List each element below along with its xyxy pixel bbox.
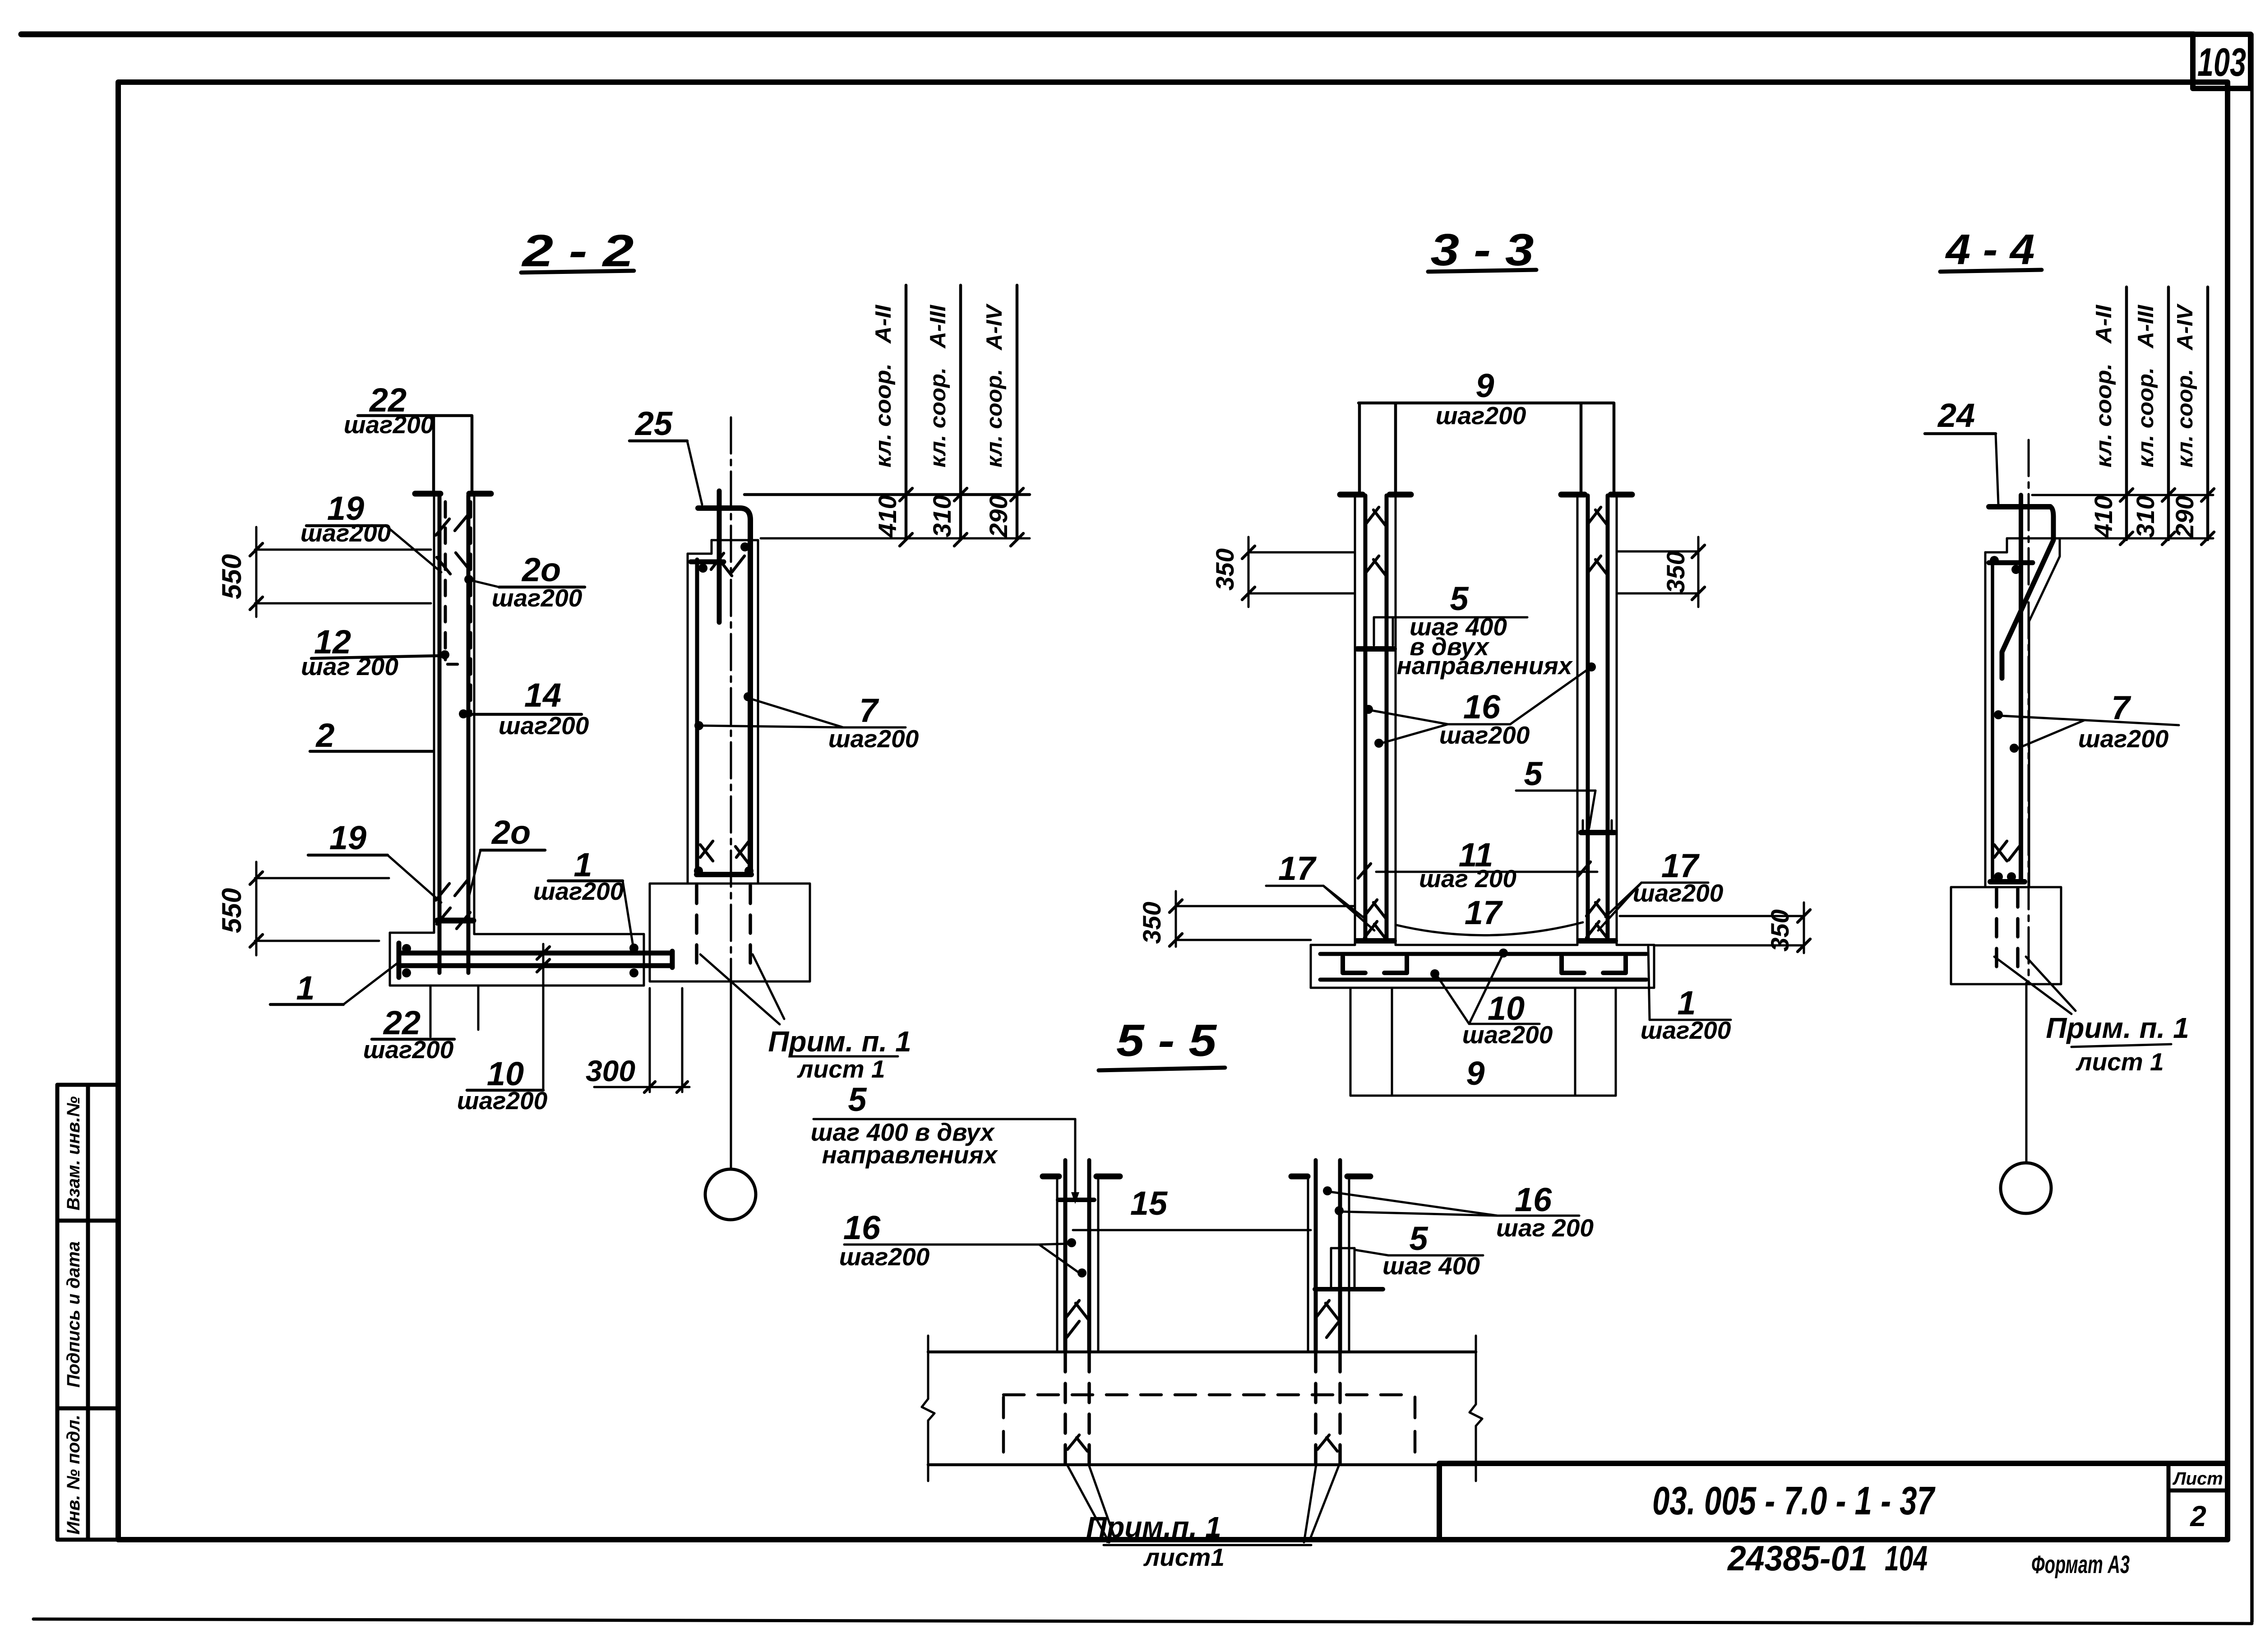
- centerline to circle 4-4: [2025, 983, 2028, 1163]
- right wall caps: [1291, 1174, 1308, 1180]
- footing middle wall: [650, 884, 810, 981]
- bar 10 hooks right: [1562, 957, 1626, 973]
- section title 3-3: [1428, 225, 1536, 275]
- wall top cap left: [415, 491, 440, 497]
- step bar thick 4-4: [1989, 560, 2033, 565]
- sheet right edge: [2250, 34, 2254, 1622]
- ticks right columns: [2120, 489, 2214, 545]
- slab band top line: [928, 1351, 1476, 1354]
- label 12 шаг200: [301, 623, 464, 680]
- wall right face: [757, 540, 759, 883]
- footing bar 1 lower: [399, 963, 672, 968]
- svg-text:кл. соор. А-II: кл. соор. А-II: [871, 305, 896, 467]
- svg-text:кл. соор. А-II: кл. соор. А-II: [2092, 305, 2116, 467]
- svg-text:290: 290: [2170, 495, 2199, 538]
- wall cap bent bar: [698, 508, 750, 874]
- footing 2-2 right edge: [643, 934, 645, 986]
- svg-text:410: 410: [2089, 495, 2117, 538]
- lap hatch bottom left wall: [1364, 900, 1387, 940]
- svg-text:310: 310: [2131, 495, 2159, 537]
- label 5 шаг 400 right: [1355, 1220, 1483, 1280]
- svg-text:шаг 200: шаг 200: [1419, 865, 1516, 893]
- svg-text:24: 24: [1937, 397, 1975, 434]
- label 14 шаг200: [459, 676, 589, 740]
- bar dots 4-4 top: [1990, 556, 1999, 565]
- column line A-II: [905, 285, 908, 540]
- right wall rebars: [1586, 495, 1590, 941]
- level line upper right: [2032, 494, 2213, 496]
- leader to note 2: [753, 954, 784, 1019]
- lap hatch top right wall: [1588, 507, 1608, 576]
- svg-text:Инв. № подл.: Инв. № подл.: [64, 1415, 83, 1535]
- lap hatch bottom right wall: [1586, 900, 1609, 940]
- footing bar dots: [1430, 969, 1439, 978]
- svg-text:шаг 200: шаг 200: [301, 652, 398, 680]
- svg-text:9: 9: [1475, 367, 1494, 404]
- svg-text:шаг200: шаг200: [1641, 1016, 1731, 1044]
- svg-text:03. 005 - 7.0 - 1 - 37: 03. 005 - 7.0 - 1 - 37: [1652, 1478, 1936, 1523]
- rebar stub right: [471, 416, 474, 493]
- bar section dots footing: [402, 944, 411, 953]
- hatch in band right wall: [1318, 1435, 1337, 1451]
- svg-text:шаг200: шаг200: [839, 1243, 930, 1271]
- label 17 right шаг200: [1598, 847, 1724, 930]
- svg-text:2 - 2: 2 - 2: [521, 226, 633, 276]
- wall rebar right: [467, 495, 471, 973]
- label 1 шаг200 center: [533, 846, 633, 946]
- right wall bottom tie: [1579, 938, 1615, 944]
- wall rebar left: [438, 495, 442, 973]
- footing 2-2 left edge: [389, 933, 391, 986]
- slab band bottom line: [928, 1463, 1476, 1467]
- sheet top edge line: [21, 32, 2194, 37]
- hatch in band left wall: [1068, 1435, 1087, 1451]
- svg-text:350: 350: [1661, 551, 1690, 593]
- leader to note: [700, 954, 780, 1024]
- svg-text:шаг 400: шаг 400: [1382, 1252, 1480, 1280]
- footing 2-2 top right: [474, 933, 644, 935]
- wall outline 4-4: [1985, 538, 2060, 886]
- lap hatch top left wall: [1366, 507, 1386, 576]
- hidden bar dashed left: [695, 885, 698, 974]
- label 1 шаг200 right: [1641, 947, 1731, 1044]
- svg-text:кл. соор. А-III: кл. соор. А-III: [926, 305, 950, 467]
- label 17 left: [1266, 850, 1374, 930]
- footing hook right: [670, 951, 675, 967]
- svg-text:16: 16: [1515, 1181, 1552, 1218]
- svg-text:кл. соор. А-IV: кл. соор. А-IV: [2173, 303, 2197, 467]
- right wall top caps: [1561, 492, 1585, 498]
- footing slab outline top: [1311, 945, 1654, 988]
- bar 15 tie line: [1073, 1185, 1311, 1230]
- svg-text:290: 290: [984, 495, 1012, 537]
- wall centerline: [730, 417, 732, 983]
- right wall plan: stubs: [1314, 1160, 1318, 1352]
- lap hatch bottom middle wall: [700, 841, 749, 863]
- column line A-IV: [1016, 285, 1019, 540]
- footing hook left: [397, 943, 402, 977]
- bar stub right wall b: [1613, 404, 1616, 493]
- label 10 шаг200 bottom: [457, 944, 548, 1115]
- lap hatch bottom 4-4: [1994, 841, 2021, 861]
- ticks on level lines: [900, 488, 1023, 546]
- svg-text:5 - 5: 5 - 5: [1116, 1015, 1217, 1066]
- svg-text:16: 16: [843, 1209, 881, 1246]
- section title 5-5: [1099, 1015, 1225, 1070]
- note Прим.п.1 лист 1 right: [2046, 1012, 2189, 1076]
- footing 2-2 bottom: [390, 985, 644, 987]
- bar stub left wall a: [1358, 404, 1361, 493]
- svg-text:кл. соор. А-III: кл. соор. А-III: [2134, 305, 2158, 467]
- column line A-III: [959, 285, 962, 540]
- bar stub right wall a: [1580, 404, 1583, 493]
- svg-text:шаг200: шаг200: [457, 1087, 548, 1115]
- wall bars dashed through band left: [1063, 1353, 1067, 1463]
- dim 350 bottom left: [1137, 891, 1354, 947]
- svg-text:310: 310: [928, 495, 956, 537]
- dim column right A-III: [2167, 287, 2170, 540]
- svg-text:шаг200: шаг200: [1462, 1021, 1553, 1049]
- svg-text:350: 350: [1137, 902, 1166, 944]
- svg-text:17: 17: [1278, 850, 1317, 887]
- svg-text:1: 1: [296, 969, 314, 1007]
- wall top cap right: [469, 491, 491, 497]
- lap hatch left wall plan: [1067, 1300, 1088, 1337]
- svg-text:24385-01: 24385-01: [1727, 1538, 1868, 1578]
- svg-text:5: 5: [1524, 755, 1543, 792]
- label 19 шаг200 upper: [300, 490, 441, 572]
- hidden footing edge dashed: [1003, 1395, 1415, 1462]
- side column strip: [57, 1085, 118, 1540]
- wall right face: [473, 494, 476, 934]
- svg-text:104: 104: [1885, 1538, 1928, 1578]
- label 20 шаг200 upper: [464, 551, 585, 612]
- hidden bars dashed 4-4: [1995, 889, 1998, 975]
- dim 550 lower: [217, 862, 389, 955]
- note Прим.п.1 лист 1: [768, 1025, 911, 1083]
- svg-text:Подпись и дата: Подпись и дата: [64, 1241, 83, 1388]
- left rebar 4-4: [1991, 558, 1994, 879]
- svg-text:2: 2: [2190, 1500, 2206, 1532]
- wall outline step: [688, 540, 758, 554]
- title block: [1439, 1463, 2228, 1540]
- svg-text:16: 16: [1463, 688, 1501, 726]
- svg-text:направлениях: направлениях: [1397, 652, 1573, 680]
- svg-text:17: 17: [1465, 894, 1503, 931]
- footing top rebar: [1320, 952, 1646, 956]
- transverse bar with arrows right wall: [1315, 1287, 1383, 1291]
- label 20 lower: [467, 814, 545, 902]
- left wall bottom tie: [1357, 938, 1394, 944]
- svg-text:шаг200: шаг200: [1633, 879, 1724, 907]
- transverse bar 5 right wall: [1581, 820, 1614, 833]
- lap hatch top: [436, 514, 469, 574]
- wall centerline 4-4: [2028, 440, 2030, 983]
- svg-text:шаг200: шаг200: [363, 1036, 454, 1064]
- centerline to circle: [730, 983, 732, 1169]
- svg-text:шаг200: шаг200: [300, 519, 391, 547]
- leaders to note 4-4: [1994, 957, 2071, 1014]
- label 5 right wall: [1516, 755, 1595, 828]
- svg-text:шаг200: шаг200: [2078, 725, 2169, 753]
- svg-text:350: 350: [1766, 909, 1794, 951]
- transverse bar 5 left wall: [1357, 646, 1394, 652]
- svg-text:Прим. п. 1: Прим. п. 1: [2046, 1012, 2189, 1044]
- label 25: [629, 405, 702, 504]
- band left end with break: [922, 1336, 934, 1481]
- wall bars dashed through band right: [1314, 1353, 1318, 1463]
- right wall faces: [1307, 1176, 1309, 1352]
- sheet bottom edge: [33, 1619, 2252, 1624]
- wall left face: [687, 554, 689, 883]
- bracket bar 5 right wall: [1331, 1248, 1355, 1288]
- left wall caps: [1043, 1174, 1059, 1180]
- svg-text:4 - 4: 4 - 4: [1945, 226, 2034, 273]
- dim 550 upper: [217, 527, 431, 617]
- svg-text:9: 9: [1466, 1055, 1484, 1092]
- lap bar dashed right: [469, 502, 472, 715]
- label 22 шаг200 bottom: [363, 986, 478, 1064]
- main rebar 4-4: [2019, 495, 2023, 880]
- svg-text:кл. соор. А-IV: кл. соор. А-IV: [982, 303, 1007, 467]
- level line upper to columns: [744, 493, 1030, 496]
- label 7 шаг200: [701, 692, 919, 753]
- section title 2-2: [521, 226, 634, 276]
- dim 300: [586, 988, 689, 1092]
- label 7 шаг200 right: [1994, 689, 2179, 753]
- footing bottom rebar: [1320, 978, 1646, 982]
- dim 350 top right: [1618, 537, 1705, 607]
- bottom tie 4-4: [1990, 879, 2025, 884]
- section title 4-4: [1940, 226, 2042, 273]
- svg-text:410: 410: [873, 495, 901, 537]
- wall rebar stub: [717, 491, 722, 622]
- svg-text:направлениях: направлениях: [822, 1141, 999, 1169]
- lap hatch right wall plan: [1317, 1300, 1339, 1337]
- svg-text:Прим. п. 1: Прим. п. 1: [768, 1025, 911, 1058]
- label 24: [1925, 397, 1998, 504]
- svg-text:шаг 200: шаг 200: [1496, 1214, 1594, 1242]
- svg-text:шаг200: шаг200: [344, 411, 435, 439]
- step bar thick: [691, 560, 724, 565]
- svg-text:15: 15: [1130, 1185, 1168, 1222]
- svg-text:25: 25: [634, 405, 673, 442]
- svg-text:5: 5: [848, 1081, 867, 1118]
- label 10 шаг200: [1438, 957, 1553, 1049]
- bar 17 curved: [1396, 922, 1583, 935]
- section mark circle left: [705, 1169, 756, 1220]
- svg-text:3 - 3: 3 - 3: [1431, 225, 1534, 275]
- svg-text:2: 2: [315, 717, 334, 754]
- label 11 шаг 200: [1358, 836, 1597, 893]
- hidden bar dashed right: [749, 885, 752, 974]
- svg-text:2o: 2o: [521, 551, 561, 588]
- svg-text:350: 350: [1211, 548, 1239, 590]
- right wall faces: [1576, 495, 1579, 945]
- section mark circle right: [2001, 1163, 2051, 1213]
- label 5 шаг400 в двух направлениях: [1374, 580, 1573, 680]
- svg-text:шаг200: шаг200: [828, 725, 919, 753]
- svg-text:550: 550: [217, 554, 247, 599]
- svg-text:Формат А3: Формат А3: [2031, 1550, 2130, 1578]
- left wall rebars: [1364, 495, 1368, 941]
- svg-text:103: 103: [2197, 40, 2246, 84]
- bar stub left wall b: [1394, 404, 1397, 493]
- footing 4-4: [1951, 887, 2061, 984]
- svg-text:шаг200: шаг200: [1439, 721, 1530, 749]
- bottom dots 4-4: [1994, 872, 2003, 881]
- label 5 шаг400 в двух направлениях: [811, 1081, 1079, 1204]
- label 16 шаг200 left: [839, 1209, 1086, 1277]
- svg-text:лист 1: лист 1: [796, 1055, 885, 1083]
- svg-text:лист 1: лист 1: [2075, 1048, 2164, 1076]
- label 16 шаг200: [1364, 662, 1596, 749]
- svg-text:19: 19: [329, 819, 366, 856]
- svg-text:7: 7: [859, 692, 879, 729]
- level line lower right: [2054, 537, 2213, 540]
- bar dots: [740, 542, 749, 551]
- svg-text:шаг200: шаг200: [499, 712, 589, 740]
- pit outline below footing: [1350, 988, 1616, 1096]
- left wall faces: [1354, 495, 1356, 945]
- svg-text:Прим.п. 1: Прим.п. 1: [1086, 1511, 1221, 1543]
- wall left face: [433, 494, 435, 933]
- svg-text:шаг200: шаг200: [1436, 402, 1526, 430]
- bottom tie bar: [697, 872, 751, 877]
- left wall top caps: [1340, 492, 1363, 498]
- svg-text:лист1: лист1: [1143, 1543, 1225, 1571]
- note Прим.п.1 лист1 bottom: [1086, 1511, 1311, 1571]
- label 16 шаг 200 right: [1323, 1181, 1594, 1242]
- dim 350 bottom right: [1620, 902, 1810, 953]
- wall left rebar: [695, 560, 699, 875]
- label 2 wall: [310, 717, 433, 754]
- bent corner bar 4-4: [2002, 507, 2053, 678]
- svg-text:14: 14: [524, 676, 561, 714]
- label 19 lower: [308, 819, 441, 902]
- lap hatch top middle wall: [711, 553, 744, 576]
- label 22 шаг200 top: [344, 381, 472, 439]
- lap hatch bottom: [436, 879, 470, 929]
- wall bottom tie bar: [437, 918, 473, 924]
- left wall plan: stubs: [1063, 1160, 1068, 1352]
- transverse bar with arrows left wall: [1058, 1198, 1094, 1202]
- label 1 bottom left: [270, 962, 399, 1007]
- leaders to bottom note: [1067, 1465, 1339, 1542]
- bar 10 hooks left: [1343, 957, 1407, 973]
- svg-text:2o: 2o: [491, 814, 531, 851]
- footing bar 1 upper: [399, 951, 672, 956]
- svg-text:550: 550: [217, 888, 247, 933]
- svg-text:Взам. инв.№: Взам. инв.№: [64, 1096, 83, 1210]
- dim column right A-IV: [2206, 287, 2210, 540]
- svg-text:300: 300: [586, 1054, 635, 1087]
- wall cap bar 4-4: [1989, 504, 2050, 509]
- slash ticks on bar 10 line: [537, 947, 550, 972]
- rebar stub left: [432, 416, 435, 493]
- svg-text:шаг200: шаг200: [533, 877, 624, 905]
- footing 2-2 top left: [390, 932, 434, 934]
- level line lower to columns: [761, 537, 1030, 540]
- svg-text:5: 5: [1450, 580, 1469, 617]
- dim column right A-II: [2125, 287, 2128, 540]
- page number box 103: [2193, 34, 2251, 88]
- left wall faces: [1056, 1176, 1059, 1352]
- dim 350 top left: [1211, 537, 1354, 607]
- band right end with break: [1470, 1336, 1482, 1481]
- label 9 шаг200 top: [1359, 367, 1614, 430]
- svg-text:Лист: Лист: [2172, 1469, 2223, 1489]
- lap bar dashed left: [444, 502, 447, 660]
- svg-text:шаг200: шаг200: [492, 584, 582, 612]
